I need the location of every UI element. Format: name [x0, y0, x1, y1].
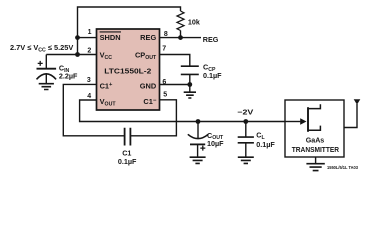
svg-text:REG: REG: [140, 33, 156, 42]
svg-text:2.2µF: 2.2µF: [59, 72, 78, 81]
svg-text:8: 8: [164, 31, 168, 38]
svg-text:10k: 10k: [188, 17, 200, 26]
svg-text:1550L/5/1L TA03: 1550L/5/1L TA03: [327, 165, 358, 170]
svg-text:0.1µF: 0.1µF: [256, 140, 275, 149]
svg-text:10µF: 10µF: [207, 139, 224, 148]
svg-text:5: 5: [163, 92, 167, 99]
svg-text:1: 1: [88, 29, 92, 36]
svg-text:C1: C1: [122, 149, 131, 158]
svg-text:REG: REG: [203, 35, 219, 44]
svg-text:SHDN: SHDN: [100, 33, 121, 42]
svg-text:2: 2: [87, 47, 91, 54]
svg-text:GaAs: GaAs: [306, 136, 325, 145]
svg-text:7: 7: [162, 45, 166, 52]
svg-text:GND: GND: [140, 81, 157, 90]
svg-text:6: 6: [162, 79, 166, 86]
svg-text:3: 3: [87, 77, 91, 84]
svg-text:0.1µF: 0.1µF: [203, 71, 222, 80]
svg-text:4: 4: [87, 93, 91, 100]
svg-text:−2V: −2V: [237, 107, 253, 116]
svg-text:TRANSMITTER: TRANSMITTER: [292, 145, 340, 154]
svg-text:0.1µF: 0.1µF: [118, 157, 137, 166]
svg-text:LTC1550L-2: LTC1550L-2: [104, 67, 151, 76]
